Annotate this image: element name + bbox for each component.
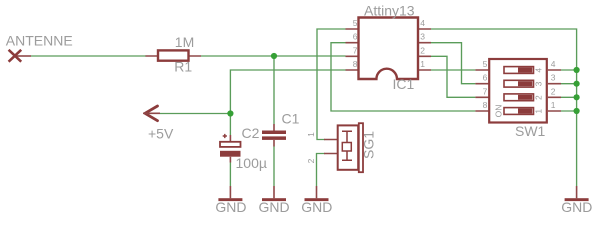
svg-text:SG1: SG1 — [361, 131, 377, 159]
svg-text:C2: C2 — [242, 125, 260, 141]
svg-text:3: 3 — [551, 73, 556, 83]
svg-text:8: 8 — [483, 100, 488, 110]
svg-text:4: 4 — [551, 59, 556, 69]
svg-text:2: 2 — [420, 45, 425, 55]
svg-text:1: 1 — [534, 109, 544, 114]
svg-text:1: 1 — [551, 100, 556, 110]
svg-text:2: 2 — [534, 95, 544, 100]
svg-text:ANTENNE: ANTENNE — [6, 33, 73, 49]
svg-text:1: 1 — [420, 59, 425, 69]
svg-text:5: 5 — [483, 59, 488, 69]
svg-text:1: 1 — [306, 132, 316, 137]
svg-text:6: 6 — [353, 32, 358, 42]
svg-text:4: 4 — [534, 68, 544, 73]
svg-text:GND: GND — [258, 199, 289, 215]
svg-text:6: 6 — [483, 73, 488, 83]
svg-text:R1: R1 — [174, 59, 192, 75]
svg-text:C1: C1 — [282, 111, 300, 127]
svg-text:GND: GND — [561, 199, 592, 215]
svg-text:5: 5 — [353, 18, 358, 28]
svg-text:Attiny13: Attiny13 — [364, 3, 415, 19]
svg-text:+5V: +5V — [148, 125, 174, 141]
svg-text:GND: GND — [301, 199, 332, 215]
svg-text:4: 4 — [420, 18, 425, 28]
svg-text:IC1: IC1 — [393, 76, 415, 92]
svg-text:2: 2 — [551, 86, 556, 96]
svg-text:ON: ON — [493, 105, 503, 118]
svg-text:7: 7 — [483, 86, 488, 96]
svg-text:7: 7 — [353, 45, 358, 55]
svg-text:1M: 1M — [175, 34, 194, 50]
svg-text:SW1: SW1 — [515, 123, 546, 139]
svg-text:2: 2 — [306, 158, 316, 163]
svg-text:8: 8 — [353, 59, 358, 69]
svg-text:3: 3 — [534, 81, 544, 86]
svg-text:GND: GND — [215, 199, 246, 215]
svg-text:100µ: 100µ — [236, 155, 267, 171]
svg-text:3: 3 — [420, 32, 425, 42]
